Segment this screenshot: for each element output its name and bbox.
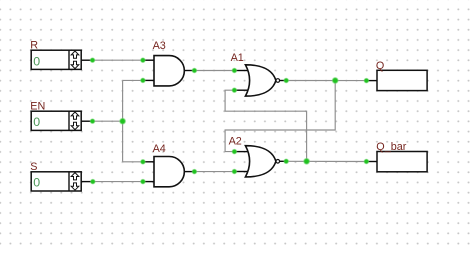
node A1 out bbox=[283, 77, 289, 83]
node A2 in2 bbox=[231, 168, 237, 174]
output Q bbox=[376, 60, 427, 91]
stub A1 input 2 bbox=[234, 89, 249, 91]
nor-gate A2 bbox=[229, 135, 280, 177]
node A3 in1 bbox=[140, 57, 146, 63]
node A4 in2 bbox=[140, 179, 146, 185]
spinner up arrow bbox=[71, 173, 79, 180]
wire A4 output to A2 input 2 bbox=[194, 171, 234, 173]
wire A3 output to A1 input 1 bbox=[194, 70, 234, 72]
stub EN output bbox=[81, 120, 92, 122]
node EN out bbox=[89, 118, 95, 124]
node Q feedback junction bbox=[331, 77, 339, 85]
node A1 in1 bbox=[231, 67, 237, 73]
output Q_bar bbox=[376, 141, 427, 172]
svg-text:Q: Q bbox=[376, 60, 384, 72]
wire EN to junction bbox=[93, 120, 123, 122]
node A3 out bbox=[191, 67, 197, 73]
bubble A2 bbox=[276, 160, 280, 164]
wire A2 output to Q_bar bbox=[286, 160, 366, 162]
wire feedback A1 out down to A2 input 1 bbox=[225, 81, 335, 152]
node A4 in1 bbox=[140, 159, 146, 165]
svg-text:0: 0 bbox=[33, 176, 40, 190]
svg-text:EN: EN bbox=[30, 100, 45, 112]
node EN junction bbox=[119, 117, 127, 125]
stub S output bbox=[81, 181, 93, 183]
node A2 out bbox=[283, 158, 289, 164]
stub A4 input 2 bbox=[143, 181, 155, 183]
stub R output bbox=[81, 59, 92, 61]
black terminal stubs bbox=[81, 60, 377, 181]
svg-text:R: R bbox=[30, 40, 38, 52]
gray interconnect wires bbox=[93, 60, 367, 181]
input R bbox=[30, 40, 81, 70]
wire R to A3 input 1 bbox=[93, 59, 143, 61]
stub A3 input 1 bbox=[143, 59, 155, 61]
spinner down arrow bbox=[71, 122, 79, 129]
junction and terminal dots (green) bbox=[89, 57, 369, 185]
stub Q_bar input bbox=[366, 161, 377, 163]
svg-text:0: 0 bbox=[33, 55, 40, 69]
stub A3 output bbox=[184, 70, 194, 72]
input S bbox=[30, 161, 81, 191]
svg-text:S: S bbox=[30, 161, 37, 173]
svg-text:Q_bar: Q_bar bbox=[376, 141, 406, 153]
node Q in bbox=[363, 78, 369, 84]
spinner up arrow bbox=[71, 51, 79, 58]
wire A1 output to Q bbox=[286, 80, 366, 82]
wire S to A4 input 2 bbox=[93, 181, 143, 183]
svg-text:A1: A1 bbox=[231, 52, 244, 64]
svg-text:A2: A2 bbox=[229, 135, 242, 147]
stub A1 output bbox=[280, 80, 287, 82]
stub A1 input 1 bbox=[234, 70, 249, 72]
input EN bbox=[30, 100, 81, 130]
node S out bbox=[90, 179, 96, 185]
wire EN vertical branch bbox=[122, 80, 124, 161]
and-gate A3 bbox=[153, 40, 185, 86]
stub Q input bbox=[366, 80, 377, 82]
node A3 in2 bbox=[140, 77, 146, 83]
node R out bbox=[89, 57, 95, 63]
spinner down arrow bbox=[71, 183, 79, 190]
svg-text:0: 0 bbox=[33, 115, 40, 129]
wire EN branch to A3 input 2 bbox=[123, 79, 143, 81]
spinner up arrow bbox=[71, 112, 79, 119]
svg-text:A4: A4 bbox=[153, 143, 166, 155]
stub A2 input 2 bbox=[234, 171, 249, 173]
wire feedback A2 out up to A1 input 2 bbox=[225, 90, 307, 161]
node Q_bar feedback junction bbox=[303, 158, 311, 166]
node A4 out bbox=[191, 169, 197, 175]
spinner down arrow bbox=[71, 61, 79, 68]
nor-gate A1 bbox=[231, 52, 280, 96]
node A1 in2 bbox=[231, 87, 237, 93]
node Q_bar in bbox=[363, 158, 369, 164]
stub A2 input 1 bbox=[234, 151, 249, 153]
stub A3 input 2 bbox=[143, 79, 155, 81]
stub A4 output bbox=[184, 171, 194, 173]
svg-text:A3: A3 bbox=[153, 40, 166, 52]
stub A2 output bbox=[280, 160, 287, 162]
bubble A1 bbox=[276, 79, 280, 83]
node A2 in1 bbox=[231, 149, 237, 155]
and-gate A4 bbox=[153, 143, 185, 187]
stub A4 input 1 bbox=[143, 161, 155, 163]
wire EN branch to A4 input 1 bbox=[123, 161, 143, 163]
